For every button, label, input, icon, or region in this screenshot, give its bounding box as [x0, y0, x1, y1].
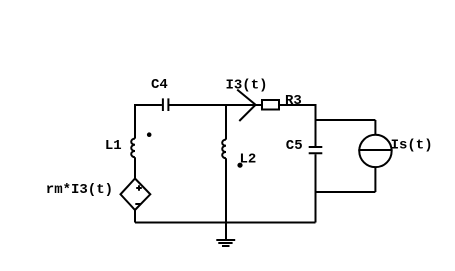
svg-text:C4: C4 [151, 77, 168, 93]
svg-text:rm*I3(t): rm*I3(t) [46, 182, 113, 198]
svg-text:C5: C5 [286, 138, 303, 154]
svg-text:L2: L2 [240, 151, 257, 167]
svg-text:R3: R3 [285, 93, 302, 109]
svg-text:L1: L1 [105, 138, 122, 154]
svg-text:Is(t): Is(t) [391, 137, 433, 153]
svg-text:I3(t): I3(t) [226, 78, 268, 94]
